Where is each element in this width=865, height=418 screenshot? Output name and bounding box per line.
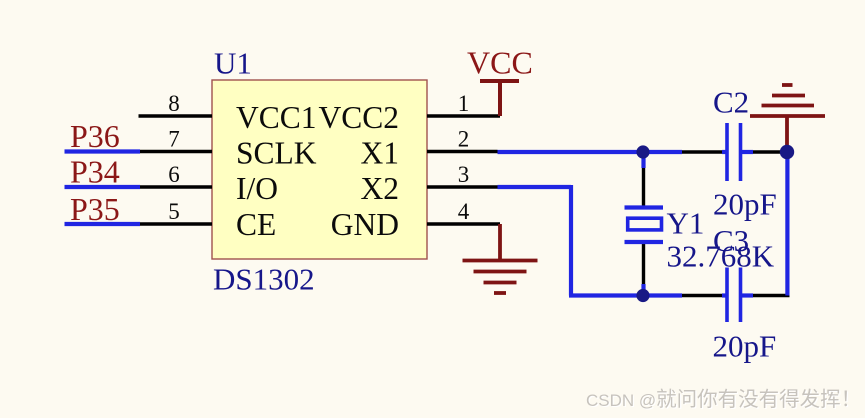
ground under pin 4 xyxy=(463,224,538,293)
wire X1 net top xyxy=(498,150,683,154)
junction right xyxy=(780,145,794,159)
capacitor C3 pins xyxy=(682,294,790,297)
svg-text:VCC1: VCC1 xyxy=(236,100,317,135)
svg-text:CSDN @就问你有没有得发挥！: CSDN @就问你有没有得发挥！ xyxy=(586,388,861,411)
pin 2 xyxy=(427,150,498,153)
svg-text:P35: P35 xyxy=(70,191,120,227)
svg-text:I/O: I/O xyxy=(236,171,278,206)
junction top xyxy=(636,145,649,158)
pin 7 xyxy=(139,150,212,153)
svg-text:4: 4 xyxy=(458,199,470,224)
svg-text:5: 5 xyxy=(168,199,180,224)
svg-text:2: 2 xyxy=(458,127,470,152)
svg-text:X1: X1 xyxy=(361,135,400,170)
pin 4 xyxy=(427,222,500,225)
svg-text:VCC: VCC xyxy=(467,45,533,81)
svg-text:Y1: Y1 xyxy=(667,206,705,241)
IC U1 body xyxy=(212,80,427,259)
svg-text:20pF: 20pF xyxy=(713,187,777,222)
svg-text:1: 1 xyxy=(458,91,470,116)
pin 1 xyxy=(427,114,500,117)
svg-text:7: 7 xyxy=(168,127,180,152)
svg-text:GND: GND xyxy=(331,207,399,242)
crystal Y1 pins xyxy=(642,158,645,290)
power VCC symbol xyxy=(480,81,519,116)
capacitor C3 xyxy=(722,268,753,323)
svg-text:U1: U1 xyxy=(214,46,252,81)
svg-text:P34: P34 xyxy=(70,154,120,190)
svg-text:DS1302: DS1302 xyxy=(213,262,315,297)
svg-text:VCC2: VCC2 xyxy=(318,100,399,135)
pin 8 xyxy=(139,114,213,117)
svg-text:20pF: 20pF xyxy=(713,329,777,364)
svg-text:6: 6 xyxy=(168,162,180,187)
svg-text:C2: C2 xyxy=(713,85,749,120)
svg-text:3: 3 xyxy=(458,162,470,187)
svg-text:CE: CE xyxy=(236,207,276,242)
crystal Y1 xyxy=(625,152,664,296)
ground top right xyxy=(750,85,825,150)
pin 3 xyxy=(427,185,498,188)
capacitor C2 pins xyxy=(682,150,788,153)
wire net P35 xyxy=(65,222,141,226)
capacitor C2 xyxy=(722,123,753,181)
svg-text:C3: C3 xyxy=(713,223,749,258)
pin 6 xyxy=(139,185,212,188)
wire net P36 xyxy=(65,149,141,153)
junction bottom xyxy=(636,289,649,302)
svg-text:X2: X2 xyxy=(361,171,400,206)
svg-text:SCLK: SCLK xyxy=(236,135,317,170)
svg-text:8: 8 xyxy=(168,91,180,116)
pin 5 xyxy=(139,222,212,225)
svg-text:P36: P36 xyxy=(70,118,120,154)
wire X2 net to crystal xyxy=(498,185,683,296)
wire net P34 xyxy=(65,185,141,189)
wire right vertical xyxy=(785,152,789,296)
